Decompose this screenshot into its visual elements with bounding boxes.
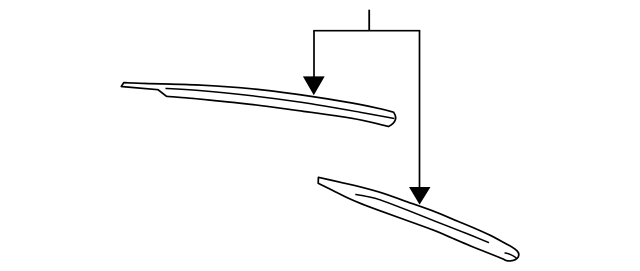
lower molding inner edge line [355, 194, 489, 242]
leader drop to upper molding [313, 31, 315, 78]
leader drop to lower molding [419, 31, 421, 188]
arrow to lower molding [409, 187, 431, 205]
arrow to upper molding [303, 76, 325, 95]
upper molding outline [121, 83, 395, 127]
leader stem (vertical from callout) [368, 10, 370, 32]
leader bracket horizontal [313, 30, 420, 32]
lower molding end tick [505, 253, 517, 258]
lower molding outline [318, 177, 519, 261]
upper molding inner edge line [166, 88, 395, 118]
